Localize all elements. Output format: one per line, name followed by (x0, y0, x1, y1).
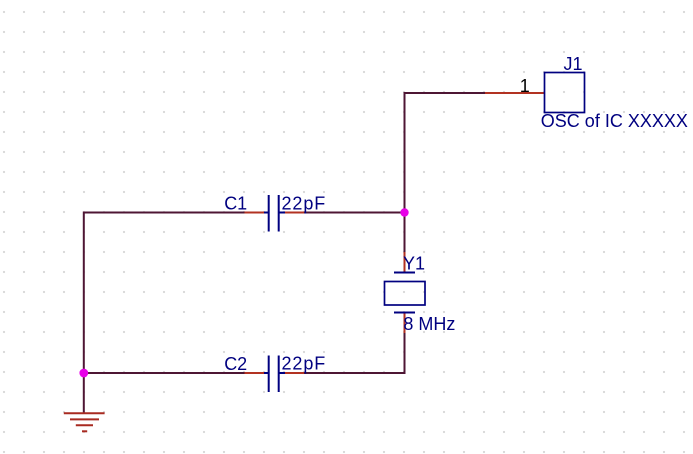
pin of C1 left (red) (245, 212, 265, 214)
svg-text:1: 1 (520, 76, 530, 96)
junction node at C1/crystal (400, 208, 408, 216)
wire: C2 right horizontal + vertical up to crystal (304, 333, 405, 373)
svg-text:C2: C2 (224, 354, 247, 374)
svg-text:J1: J1 (564, 54, 583, 74)
svg-text:Y1: Y1 (403, 253, 425, 273)
wire: C1 left + left vertical down to ground (84, 213, 245, 414)
connector J1 box (545, 73, 585, 113)
wire: J1 horizontal + vertical down to crystal (405, 93, 486, 253)
junction node at C2/ground (79, 369, 88, 378)
ground (64, 413, 105, 431)
pin of C1 right (red) (285, 212, 305, 214)
pin of C2 left (red) (245, 372, 265, 374)
svg-text:OSC of IC XXXXX: OSC of IC XXXXX (541, 111, 688, 131)
crystal Y1 body (385, 273, 426, 313)
svg-text:C1: C1 (224, 194, 247, 214)
capacitor C2 plates (264, 356, 285, 393)
wire: C2 left horizontal (84, 372, 245, 374)
pin of Y1 top (red) (404, 252, 406, 272)
capacitor C1 plates (264, 195, 285, 232)
svg-text:8 MHz: 8 MHz (403, 314, 455, 334)
pin of C2 right (red) (285, 372, 305, 374)
svg-text:22pF: 22pF (282, 354, 327, 374)
svg-text:22pF: 22pF (282, 193, 327, 213)
wire: C1 right horizontal (304, 212, 405, 214)
pin 1 of J1 (red) (485, 92, 544, 94)
pin of Y1 bottom (red) (404, 313, 406, 333)
